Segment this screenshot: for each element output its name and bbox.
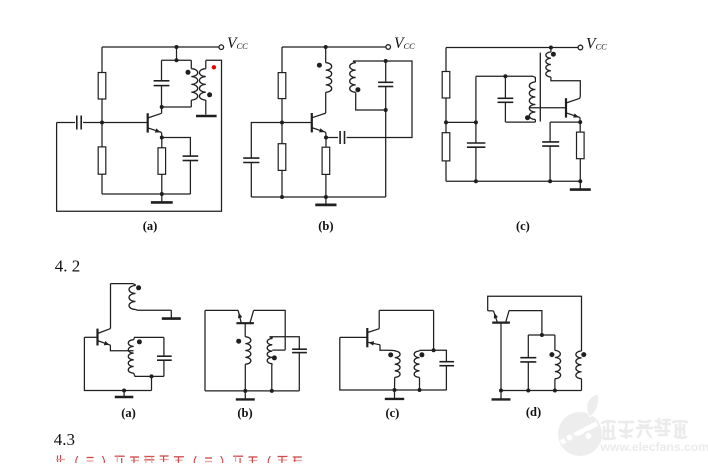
svg-text:(b): (b) [237, 406, 252, 420]
svg-text:(c): (c) [385, 406, 399, 420]
svg-text:4. 2: 4. 2 [55, 257, 81, 276]
svg-text:(d): (d) [526, 405, 541, 419]
svg-text:www.elecfans.com: www.elecfans.com [600, 440, 708, 454]
svg-text:(b): (b) [318, 219, 333, 233]
svg-text:(a): (a) [143, 219, 158, 233]
svg-text:4.3: 4.3 [54, 430, 75, 449]
svg-text:(c): (c) [516, 219, 530, 233]
svg-text:(a): (a) [121, 406, 136, 420]
